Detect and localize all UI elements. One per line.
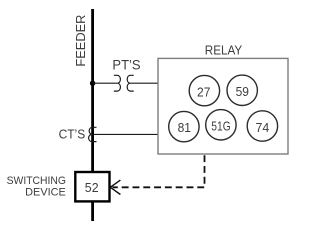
svg-text:52: 52	[85, 180, 99, 195]
wire: feeder vertical bus	[91, 9, 94, 221]
svg-text:PT’S: PT’S	[112, 57, 140, 72]
svg-text:FEEDER: FEEDER	[73, 15, 88, 67]
svg-text:51G: 51G	[211, 119, 230, 134]
wire: PT secondary to relay	[130, 82, 158, 84]
relay function 59	[227, 75, 257, 105]
relay function 51G	[206, 110, 236, 140]
svg-text:SWITCHING: SWITCHING	[7, 175, 66, 187]
transformer PT primary winding	[114, 75, 121, 91]
svg-text:81: 81	[178, 120, 191, 135]
transformer CT secondary winding on feeder	[89, 127, 97, 141]
svg-text:27: 27	[197, 84, 210, 99]
relay function 74	[247, 111, 277, 141]
svg-text:RELAY: RELAY	[205, 42, 243, 57]
node: PT tap junction	[90, 81, 95, 86]
relay enclosure box	[158, 58, 288, 154]
relay function 81	[169, 111, 199, 141]
wire: feeder to PT primary	[93, 82, 118, 84]
svg-text:59: 59	[236, 84, 249, 99]
breaker 52 box	[75, 172, 109, 201]
wire: dashed control line relay to breaker	[113, 155, 205, 187]
transformer PT secondary winding	[127, 75, 134, 91]
svg-text:CT’S: CT’S	[59, 127, 86, 142]
wire: CT secondary to relay	[92, 133, 158, 135]
svg-text:DEVICE: DEVICE	[25, 186, 66, 198]
relay function 27	[189, 75, 219, 105]
svg-text:74: 74	[256, 120, 270, 135]
arrowhead into breaker 52	[110, 180, 120, 194]
